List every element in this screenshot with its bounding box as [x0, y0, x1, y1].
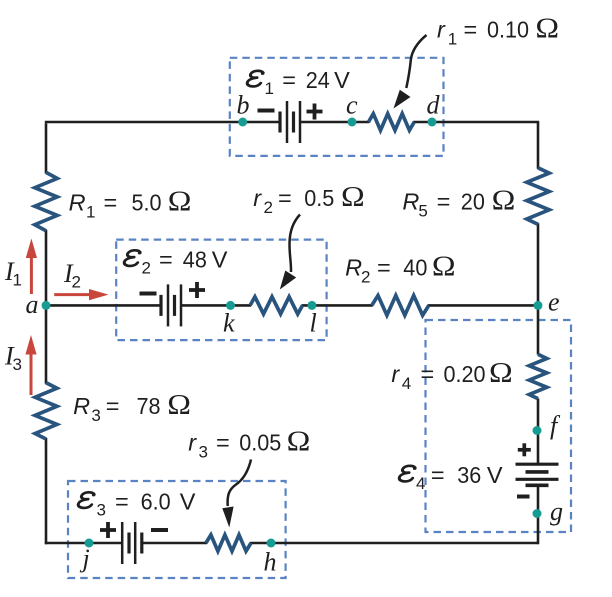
internal resistance r1 = 0.10 Ohm (top horizontal zigzag)	[369, 114, 415, 131]
svg-text:r: r	[253, 185, 262, 211]
resistor R3 = 78 Ohm (left lower vertical zigzag)	[35, 383, 57, 439]
wire top segment r1 to top-right corner	[413, 121, 539, 124]
svg-text:Ω: Ω	[492, 184, 516, 216]
wire right segment R5 to r4 (through node e)	[537, 223, 540, 354]
svg-text:1: 1	[86, 203, 95, 222]
svg-text:f: f	[550, 411, 561, 440]
dashed box around emf source 3 (e3, r3)	[68, 481, 286, 578]
svg-text:6.0: 6.0	[141, 489, 171, 515]
resistor R5 = 20 Ohm (right upper vertical zigzag)	[527, 168, 549, 225]
svg-text:a: a	[26, 290, 39, 319]
pointer arrow from label r2 to resistor r2	[280, 215, 300, 290]
svg-text:Ω: Ω	[341, 180, 365, 212]
battery E3 minus sign	[151, 528, 168, 532]
svg-text:=: =	[104, 190, 118, 216]
svg-text:3: 3	[13, 355, 22, 374]
wire left top segment (corner a-side up to R1)	[45, 123, 48, 173]
svg-text:h: h	[264, 548, 277, 577]
svg-text:R: R	[69, 190, 86, 216]
svg-text:r: r	[188, 430, 197, 456]
svg-text:=: =	[216, 430, 230, 456]
label r4 = 0.20 Ohm	[391, 356, 512, 393]
svg-text:r: r	[391, 361, 400, 387]
internal resistance r2 = 0.5 Ohm (middle horizontal zigzag)	[250, 297, 302, 314]
battery E3 = 6.0 V (bottom, + left / - right)	[122, 522, 142, 564]
internal resistance r3 = 0.05 Ohm (bottom horizontal zigzag)	[206, 535, 251, 551]
wire left segment R3 to bottom-left corner	[45, 438, 48, 544]
svg-text:3: 3	[91, 406, 100, 425]
svg-text:20: 20	[461, 189, 485, 215]
EMF script-E symbol for E4	[399, 466, 417, 482]
label R1 = 5.0 Ohm	[69, 185, 192, 222]
label r1 = 0.10 Ohm	[437, 12, 559, 49]
node e	[534, 301, 543, 310]
node a	[42, 301, 51, 310]
resistor R2 = 40 Ohm (middle horizontal zigzag)	[372, 296, 429, 316]
svg-text:4: 4	[402, 374, 411, 393]
current arrow I2 (red, pointing right)	[54, 289, 108, 300]
svg-text:2: 2	[264, 198, 273, 217]
label R3 = 78 Ohm	[73, 388, 191, 425]
svg-text:48: 48	[183, 247, 207, 273]
wire right segment r4 to battery e4 (through node f)	[537, 399, 540, 465]
svg-text:l: l	[310, 309, 317, 338]
svg-text:V: V	[487, 462, 503, 488]
node b	[238, 118, 247, 127]
svg-text:3: 3	[199, 443, 208, 462]
svg-text:=: =	[282, 67, 296, 93]
internal resistance r4 = 0.20 Ohm (right vertical zigzag)	[529, 354, 547, 398]
EMF script-E symbol for E2	[124, 250, 142, 266]
svg-text:1: 1	[448, 30, 457, 49]
battery E3 plus sign	[100, 522, 116, 538]
svg-text:=: =	[278, 185, 292, 211]
svg-text:0.20: 0.20	[444, 361, 486, 387]
svg-text:=: =	[464, 17, 478, 43]
battery E1 = 24 V (top, - left / + right)	[280, 101, 300, 143]
battery E4 = 36 V (right vertical, + top / - bottom)	[516, 464, 559, 485]
wire top segment battery e1 to r1	[300, 121, 370, 124]
svg-text:R: R	[73, 393, 90, 419]
node h	[267, 539, 276, 548]
node k	[226, 301, 235, 310]
svg-text:5.0: 5.0	[132, 190, 162, 216]
battery E4 minus sign	[517, 495, 530, 499]
battery E4 plus sign	[518, 443, 531, 456]
battery E1 minus sign	[258, 109, 275, 113]
svg-text:=: =	[159, 247, 173, 273]
svg-text:40: 40	[403, 255, 427, 281]
svg-text:V: V	[334, 67, 350, 93]
pointer arrow from label r1 to resistor r1	[394, 35, 427, 109]
svg-text:4: 4	[416, 474, 425, 493]
svg-text:0.5: 0.5	[304, 185, 334, 211]
svg-text:36: 36	[457, 462, 481, 488]
svg-text:g: g	[550, 497, 563, 526]
battery E2 = 48 V (middle, - left / + right)	[161, 284, 181, 326]
dashed box around emf source 2 (e2, r2)	[116, 240, 326, 341]
wire right segment top corner to R5	[537, 122, 540, 169]
wire right segment battery e4 to bottom-right corner (through node g)	[537, 485, 540, 544]
wire bottom segment r3 to bottom-right corner	[250, 542, 539, 545]
svg-text:2: 2	[72, 273, 81, 292]
label R5 = 20 Ohm	[402, 184, 515, 221]
svg-text:V: V	[180, 489, 196, 515]
label r3 = 0.05 Ohm	[188, 425, 310, 462]
svg-text:0.05: 0.05	[239, 430, 281, 456]
svg-text:e: e	[548, 288, 560, 317]
EMF script-E symbol for E1	[247, 71, 265, 87]
svg-text:R: R	[345, 255, 362, 281]
svg-text:3: 3	[97, 501, 106, 520]
svg-text:Ω: Ω	[287, 425, 311, 457]
svg-text:k: k	[223, 309, 235, 338]
svg-text:c: c	[346, 91, 358, 120]
svg-text:=: =	[115, 489, 129, 515]
svg-text:r: r	[437, 17, 446, 43]
svg-text:78: 78	[137, 393, 161, 419]
wire middle segment battery e2 to r2	[181, 304, 251, 307]
dashed box around emf source 4 (e4, r4)	[426, 320, 572, 532]
dashed box around emf source 1 (e1, r1)	[230, 58, 444, 156]
node d	[428, 118, 437, 127]
node l	[307, 301, 316, 310]
svg-text:5: 5	[418, 202, 427, 221]
svg-text:Ω: Ω	[432, 250, 456, 282]
svg-text:2: 2	[142, 259, 151, 278]
svg-text:2: 2	[361, 268, 370, 287]
svg-text:R: R	[402, 189, 419, 215]
svg-text:Ω: Ω	[535, 12, 559, 44]
svg-text:1: 1	[13, 271, 22, 290]
svg-text:=: =	[421, 361, 435, 387]
svg-text:0.10: 0.10	[487, 17, 529, 43]
wire left segment R1 to R3 (through node a)	[45, 230, 48, 384]
wire top left segment (corner to battery e1)	[45, 121, 280, 124]
EMF script-E symbol for E3	[78, 492, 96, 508]
svg-text:d: d	[427, 91, 441, 120]
battery E2 plus sign	[189, 282, 205, 298]
current arrow I3 (red, pointing up)	[25, 335, 36, 395]
svg-text:=: =	[377, 255, 391, 281]
svg-text:=: =	[437, 189, 451, 215]
resistor R1 = 5.0 Ohm (left upper vertical zigzag)	[35, 172, 57, 230]
wire bottom segment battery e3 to r3	[142, 542, 207, 545]
svg-text:=: =	[106, 393, 120, 419]
svg-text:Ω: Ω	[167, 388, 191, 420]
pointer arrow from label r3 to resistor r3	[222, 460, 251, 528]
wire middle segment R2 to node e	[428, 304, 538, 307]
battery E1 plus sign	[307, 104, 323, 120]
wire middle segment node a to battery e2	[46, 304, 161, 307]
wire bottom segment left corner to battery e3	[45, 542, 122, 545]
node c	[348, 118, 357, 127]
svg-text:=: =	[431, 462, 445, 488]
label R2 = 40 Ohm	[345, 250, 456, 287]
node f	[533, 426, 542, 435]
svg-text:Ω: Ω	[489, 356, 513, 388]
svg-text:j: j	[80, 544, 90, 573]
svg-text:b: b	[237, 91, 250, 120]
node g	[533, 509, 542, 518]
label r2 = 0.5 Ohm	[253, 180, 365, 217]
svg-text:V: V	[212, 247, 228, 273]
node j	[85, 539, 94, 548]
current arrow I1 (red, pointing up)	[26, 239, 37, 295]
svg-text:24: 24	[306, 67, 330, 93]
wire middle segment r2 to R2	[302, 304, 373, 307]
battery E2 minus sign	[140, 292, 157, 296]
svg-text:1: 1	[265, 79, 274, 98]
svg-text:Ω: Ω	[168, 185, 192, 217]
